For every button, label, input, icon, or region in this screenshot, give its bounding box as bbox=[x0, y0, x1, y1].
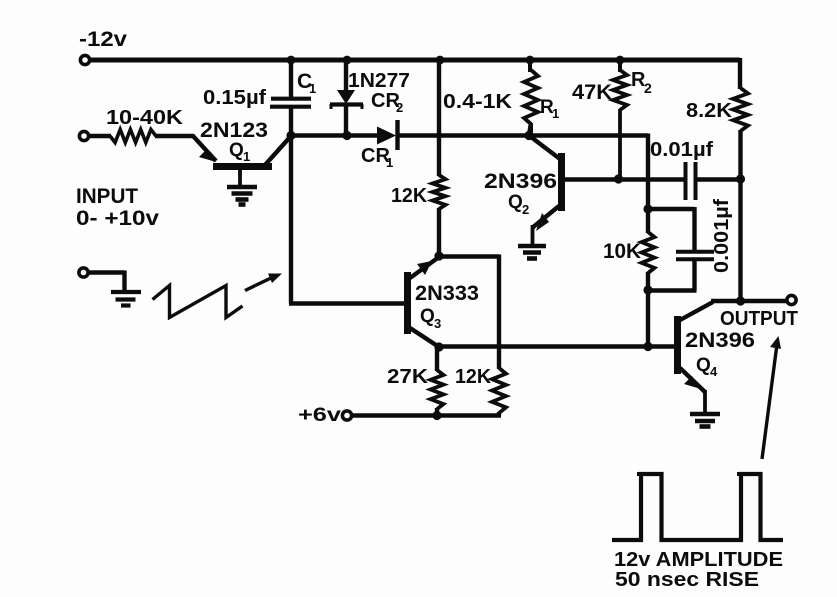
node cap-0.01uf right bbox=[736, 174, 745, 183]
wire 8.2K down to output column bbox=[738, 130, 742, 302]
resistor R1 bbox=[530, 58, 531, 137]
ground sweep input bbox=[111, 292, 141, 306]
wire 12K to Q3 collector node bbox=[437, 208, 441, 255]
arrow waveform to output bbox=[762, 348, 777, 459]
node R2-Q2 base bbox=[614, 174, 623, 183]
wire Q2 emitter stub bbox=[531, 225, 535, 245]
svg-text:12K: 12K bbox=[391, 185, 428, 207]
svg-text:3: 3 bbox=[434, 316, 441, 331]
resistor 10K bbox=[642, 232, 655, 273]
ground Q1 bbox=[227, 187, 257, 205]
wire row2 right segment bbox=[397, 133, 648, 137]
wire R1 bottom stub bbox=[529, 123, 531, 135]
diode CR1 bbox=[377, 120, 398, 150]
node Q4 base bbox=[643, 342, 652, 351]
svg-text:12v AMPLITUDE: 12v AMPLITUDE bbox=[614, 549, 783, 571]
svg-text:Q: Q bbox=[696, 355, 711, 376]
arrowhead Q3 emitter bbox=[417, 261, 432, 275]
svg-text:0.4-1K: 0.4-1K bbox=[443, 91, 513, 113]
sawtooth waveform bbox=[153, 286, 243, 318]
wire Q1 ground stub bbox=[238, 168, 242, 186]
transistor Q1 collector line bbox=[265, 136, 291, 165]
arrowhead Q4 emitter bbox=[684, 376, 701, 389]
svg-text:OUTPUT: OUTPUT bbox=[720, 308, 798, 330]
node row2-C1 bbox=[286, 131, 295, 140]
wire C1 top stub bbox=[289, 60, 293, 97]
resistor 10-40K bbox=[110, 130, 156, 143]
svg-text:2N396: 2N396 bbox=[685, 329, 755, 352]
transistor Q2 emitter line bbox=[532, 206, 559, 228]
resistor 12K (upper) bbox=[433, 175, 446, 209]
transistor Q2 collector line bbox=[529, 136, 560, 160]
ground Q4 bbox=[690, 414, 720, 427]
svg-text:1: 1 bbox=[309, 81, 316, 96]
node rail-C1 bbox=[287, 56, 296, 65]
svg-text:12K: 12K bbox=[455, 366, 492, 388]
transistor Q3 collector line (bottom) bbox=[410, 328, 439, 347]
node 10K top bbox=[643, 204, 652, 213]
wire 27K stubs bbox=[435, 347, 439, 415]
arrowhead Q2 emitter bbox=[536, 213, 549, 231]
svg-text:47K: 47K bbox=[572, 81, 612, 104]
svg-text:0.15µf: 0.15µf bbox=[203, 87, 266, 109]
node rail-CR2 bbox=[343, 56, 352, 65]
capacitor 0.01uf bbox=[686, 162, 696, 200]
arrow sawtooth to wire bbox=[245, 278, 272, 291]
node 10K bottom bbox=[643, 285, 652, 294]
wire vertical C1-column down to Q3 base bbox=[289, 136, 293, 304]
svg-text:INPUT: INPUT bbox=[76, 185, 138, 208]
svg-text:27K: 27K bbox=[387, 366, 429, 388]
wire cap loop top bbox=[648, 207, 695, 251]
terminal input bbox=[79, 131, 88, 140]
svg-text:2N333: 2N333 bbox=[415, 282, 479, 305]
svg-text:0.001µf: 0.001µf bbox=[711, 199, 733, 273]
wire cap right plate to column bbox=[697, 177, 740, 181]
node row2-R1-Q2 bbox=[524, 131, 533, 140]
svg-text:Q: Q bbox=[420, 306, 435, 327]
wire row2 corner down to 10K node bbox=[646, 134, 650, 210]
wire row2 left segment bbox=[291, 133, 378, 137]
arrowhead Q1 emitter bbox=[199, 150, 216, 162]
transistor Q4 collector line bbox=[680, 302, 713, 320]
diode CR2 bbox=[330, 60, 363, 137]
svg-text:1: 1 bbox=[552, 106, 559, 121]
node 27K bottom bbox=[432, 411, 441, 420]
svg-text:50 nsec RISE: 50 nsec RISE bbox=[615, 569, 759, 591]
transistor Q2 base bar bbox=[558, 153, 565, 211]
wire 12K branch upper bbox=[437, 60, 441, 176]
transistor Q3 base bar bbox=[404, 272, 411, 334]
ground Q2 bbox=[518, 246, 546, 259]
arrowhead sawtooth arrow bbox=[268, 274, 282, 284]
svg-text:0.01µf: 0.01µf bbox=[650, 139, 713, 161]
wire input to resistor bbox=[89, 134, 111, 138]
svg-text:Q: Q bbox=[229, 140, 244, 161]
transistor Q1 base bar bbox=[213, 163, 272, 170]
transistor Q4 base bar bbox=[674, 316, 681, 374]
wire 12Kb bottom corner to +6v rail bbox=[352, 412, 501, 416]
node output column bbox=[736, 296, 745, 305]
svg-text:2N396: 2N396 bbox=[484, 170, 557, 193]
node rail-R2 bbox=[616, 56, 625, 65]
resistor 12K (lower) bbox=[492, 368, 506, 413]
svg-text:-12v: -12v bbox=[79, 28, 127, 51]
wire Q3 emitter to Q4 base bbox=[439, 344, 675, 348]
wire cap loop bottom bbox=[648, 258, 697, 291]
capacitor 0.001uf bbox=[676, 252, 714, 259]
wire corner down to 12Kb bbox=[497, 255, 501, 370]
wire R2 down to Q2 base bbox=[618, 109, 622, 179]
transistor Q4 emitter line bbox=[680, 368, 705, 392]
arrowhead output arrow bbox=[770, 336, 781, 349]
wire rail corner down to 8.2K bbox=[738, 58, 742, 89]
svg-text:2: 2 bbox=[522, 202, 529, 217]
wire C1 bottom stub bbox=[289, 106, 293, 137]
terminal +6v bbox=[342, 411, 351, 420]
node rail-12K bbox=[436, 56, 445, 65]
node Q3 collector bbox=[434, 251, 443, 260]
wire sweep terminal to ground bbox=[88, 271, 125, 291]
svg-text:0- +10v: 0- +10v bbox=[76, 207, 159, 230]
svg-text:4: 4 bbox=[710, 364, 718, 379]
output pulse waveform bbox=[637, 472, 743, 476]
transistor Q2 base wire bbox=[564, 177, 684, 181]
svg-text:Q: Q bbox=[508, 192, 523, 213]
node rail-R1 bbox=[526, 56, 535, 65]
svg-text:2N123: 2N123 bbox=[200, 119, 268, 142]
svg-text:1: 1 bbox=[243, 149, 250, 164]
terminal output bbox=[787, 295, 796, 304]
resistor 27K bbox=[431, 370, 444, 409]
terminal -12v bbox=[80, 55, 89, 64]
svg-text:10-40K: 10-40K bbox=[106, 107, 184, 129]
svg-text:8.2K: 8.2K bbox=[686, 100, 733, 122]
svg-text:1: 1 bbox=[386, 155, 393, 170]
svg-text:2: 2 bbox=[396, 100, 403, 115]
terminal sweep input bbox=[79, 268, 88, 277]
svg-text:2: 2 bbox=[644, 80, 652, 96]
wire -12v rail bbox=[90, 58, 740, 63]
svg-text:1N277: 1N277 bbox=[348, 70, 410, 92]
capacitor C1 bbox=[270, 99, 311, 107]
wire 10K stubs bbox=[646, 208, 650, 291]
resistor 8.2K bbox=[733, 88, 748, 131]
wire Q3 base horizontal bbox=[289, 301, 404, 305]
svg-text:10K: 10K bbox=[603, 240, 641, 263]
wire Q4 emitter stub bbox=[703, 390, 707, 413]
svg-text:+6v: +6v bbox=[298, 405, 342, 426]
wire resistor to Q1 bbox=[155, 136, 216, 161]
wire 10K node down to Q4 base bbox=[646, 289, 650, 347]
node row2-CR2 bbox=[342, 131, 351, 140]
wire collector node to 12Kb corner bbox=[439, 254, 499, 258]
resistor R2 bbox=[618, 58, 622, 72]
transistor Q3 emitter line (top) bbox=[410, 257, 439, 278]
node Q3 emitter bbox=[434, 342, 443, 351]
wire Q4 collector to output bbox=[711, 299, 787, 303]
